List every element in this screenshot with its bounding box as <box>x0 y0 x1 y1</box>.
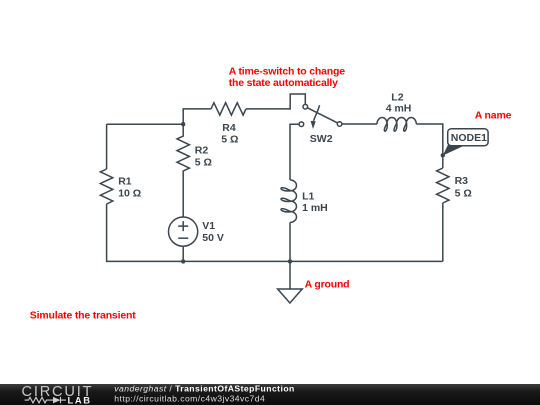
wire: switch left pole to L1 <box>290 124 299 180</box>
wire: L2 right lead down to NODE1 dot <box>416 124 443 155</box>
resistor R1 <box>100 169 112 204</box>
node NODE1 anchor dot <box>441 153 445 157</box>
svg-text:L1: L1 <box>302 191 314 203</box>
svg-text:vanderghast / TransientOfAStep: vanderghast / TransientOfAStepFunction <box>114 383 294 393</box>
svg-text:A name: A name <box>475 110 512 122</box>
wire: R4 right lead to switch common (with up jog) <box>246 94 305 109</box>
svg-text:A ground: A ground <box>305 278 350 290</box>
node junction dot at R2 top <box>181 122 185 126</box>
svg-text:SW2: SW2 <box>310 133 333 145</box>
wire: L1 bottom to ground junction <box>289 222 291 261</box>
switch SW2 <box>299 104 342 129</box>
svg-text:4 mH: 4 mH <box>386 103 412 115</box>
wire: top-left horizontal to junction <box>107 123 184 125</box>
svg-text:http://circuitlab.com/c4w3jv34: http://circuitlab.com/c4w3jv34vc7d4 <box>114 393 265 403</box>
wire: R2 bottom to V1 top <box>182 173 184 218</box>
node NODE1 name flag <box>443 129 488 156</box>
svg-text:A time-switch to change: A time-switch to change <box>229 66 346 78</box>
svg-text:NODE1: NODE1 <box>451 132 487 144</box>
svg-text:Simulate the transient: Simulate the transient <box>30 310 136 322</box>
ground <box>278 289 303 303</box>
wire: junction up-jog to R4 left lead <box>183 109 211 124</box>
svg-text:R4: R4 <box>222 122 236 134</box>
wire: bottom rail from R1 down and across to bottom-right corner <box>107 204 443 261</box>
svg-text:R2: R2 <box>195 144 209 156</box>
logo schematic doodle (resistor + diode) <box>25 397 66 403</box>
resistor R3 <box>437 168 449 203</box>
svg-text:V1: V1 <box>202 220 215 232</box>
node junction dot ground <box>288 259 292 263</box>
wire: switch right pole to L2 <box>342 123 377 125</box>
inductor L1 <box>281 180 297 223</box>
svg-text:the state automatically: the state automatically <box>229 77 338 89</box>
wire: R3 bottom to bottom-right corner <box>442 203 444 261</box>
node junction dot V1 bottom <box>181 259 185 263</box>
svg-text:5 Ω: 5 Ω <box>455 188 472 200</box>
svg-text:L2: L2 <box>391 91 403 103</box>
inductor L2 <box>377 117 416 131</box>
svg-text:1 mH: 1 mH <box>302 202 328 214</box>
resistor R2 <box>177 124 189 172</box>
wire: left vertical from top-left corner to R1 <box>106 124 108 169</box>
voltage source V1 <box>169 217 198 246</box>
svg-text:5 Ω: 5 Ω <box>221 134 238 146</box>
wire: NODE1 dot to R3 <box>442 155 444 168</box>
footer bar background <box>0 384 540 405</box>
svg-text:10 Ω: 10 Ω <box>118 188 141 200</box>
wire: V1 bottom to bottom wire <box>182 246 184 261</box>
wire: ground stem <box>289 261 291 289</box>
svg-text:R1: R1 <box>118 176 132 188</box>
svg-text:R3: R3 <box>455 175 469 187</box>
svg-text:5 Ω: 5 Ω <box>195 156 212 168</box>
svg-text:50 V: 50 V <box>202 232 224 244</box>
resistor R4 <box>211 103 246 115</box>
svg-text:LAB: LAB <box>68 394 92 405</box>
